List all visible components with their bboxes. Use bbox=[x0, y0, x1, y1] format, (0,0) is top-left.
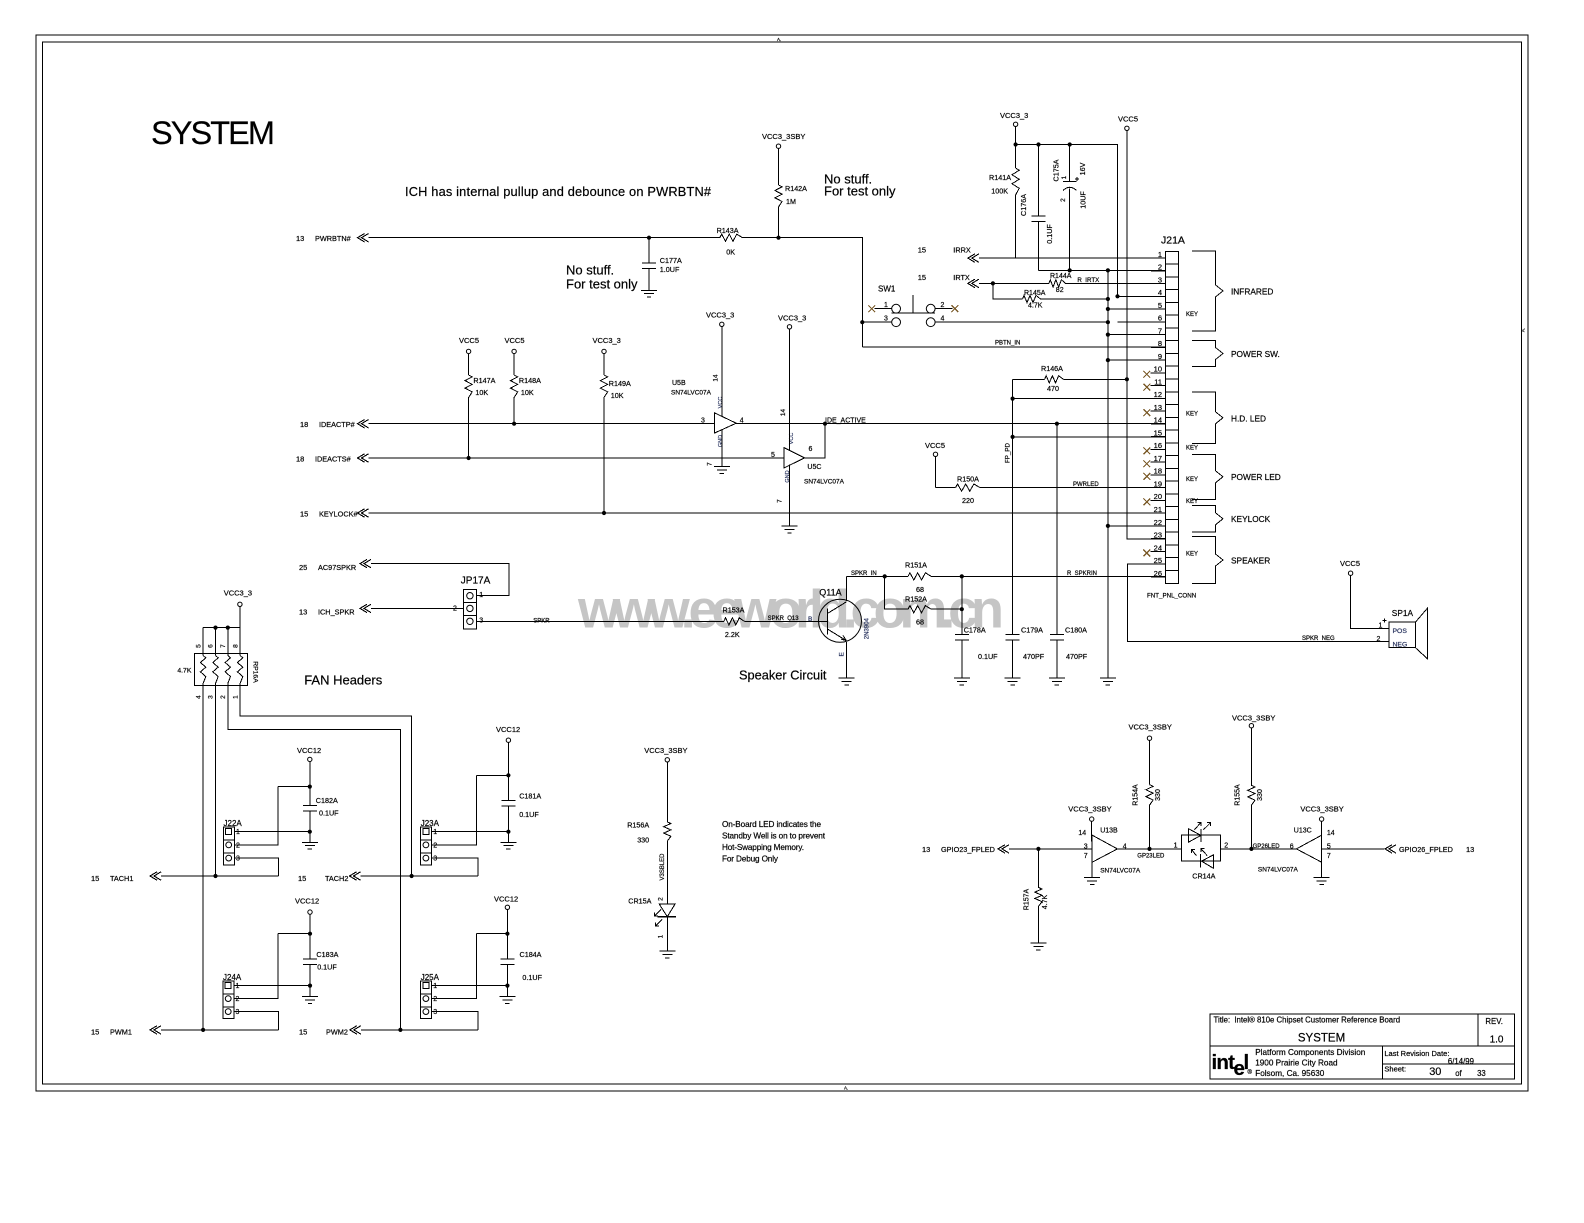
svg-text:470PF: 470PF bbox=[1066, 652, 1088, 661]
svg-text:R153A: R153A bbox=[723, 606, 745, 615]
svg-text:68: 68 bbox=[916, 618, 924, 627]
svg-text:18: 18 bbox=[1154, 467, 1162, 476]
svg-text:9: 9 bbox=[1158, 352, 1162, 361]
svg-text:REV.: REV. bbox=[1485, 1017, 1502, 1026]
svg-text:C180A: C180A bbox=[1065, 626, 1087, 635]
svg-text:2: 2 bbox=[236, 996, 240, 1003]
capacitor C177A bbox=[648, 238, 650, 264]
svg-text:6: 6 bbox=[208, 644, 215, 648]
no-connect pins J21A bbox=[1143, 371, 1150, 378]
svg-text:Sheet:: Sheet: bbox=[1384, 1065, 1406, 1074]
wire J23A pin2 bbox=[432, 775, 477, 845]
svg-text:NEG: NEG bbox=[1393, 641, 1408, 648]
svg-text:VCC5: VCC5 bbox=[505, 336, 525, 345]
svg-text:E: E bbox=[839, 651, 846, 656]
svg-text:VCC12: VCC12 bbox=[297, 746, 321, 755]
svg-text:Standby Well is on to prevent: Standby Well is on to prevent bbox=[722, 832, 826, 841]
wire VCC12 rail J24A bbox=[309, 914, 311, 959]
ground U13C bbox=[1321, 862, 1323, 877]
capacitor C175A polarized bbox=[1069, 145, 1071, 182]
ground Q11A bbox=[839, 677, 855, 679]
svg-text:10: 10 bbox=[1154, 365, 1162, 374]
capacitor C182A bbox=[303, 805, 317, 807]
svg-text:5: 5 bbox=[1158, 301, 1162, 310]
svg-text:of: of bbox=[1455, 1069, 1462, 1078]
ground U5B bbox=[721, 430, 723, 467]
svg-text:5: 5 bbox=[195, 644, 202, 648]
svg-text:13: 13 bbox=[299, 608, 307, 617]
svg-text:15: 15 bbox=[299, 1027, 307, 1036]
junction VCC3_3 pin4 bbox=[1115, 294, 1119, 298]
svg-text:VCC5: VCC5 bbox=[925, 441, 945, 450]
junction C177A tap bbox=[647, 236, 651, 240]
wire IDE_ACTIVE pin14 bbox=[736, 423, 1165, 425]
junction FP_PD pin12 bbox=[1011, 397, 1015, 401]
wire VCC5 vertical bbox=[1126, 131, 1128, 380]
brace POWER LED bbox=[1192, 454, 1223, 499]
svg-text:TACH2: TACH2 bbox=[325, 874, 348, 883]
wire FP_PD vertical bbox=[1012, 379, 1014, 634]
svg-text:GP23LED: GP23LED bbox=[1137, 853, 1165, 859]
ground C177A bbox=[641, 289, 657, 291]
svg-text:R154A: R154A bbox=[1133, 784, 1140, 806]
wire pin12 bbox=[1013, 398, 1166, 400]
capacitor C183A bbox=[303, 958, 317, 960]
svg-text:R_SPKRIN: R_SPKRIN bbox=[1067, 571, 1097, 577]
ground CR15A bbox=[659, 950, 675, 952]
svg-text:FAN Headers: FAN Headers bbox=[304, 673, 383, 688]
svg-text:0.1UF: 0.1UF bbox=[519, 810, 539, 819]
wire R145A to gnd bus bbox=[1041, 298, 1108, 300]
ground C180A bbox=[1049, 677, 1065, 679]
svg-text:PBTN_IN: PBTN_IN bbox=[995, 341, 1020, 347]
svg-text:2: 2 bbox=[453, 606, 457, 613]
wire VCC3_3 rail bbox=[1015, 127, 1017, 145]
junction gnd bus pin7 bbox=[1106, 333, 1110, 337]
svg-text:VCC12: VCC12 bbox=[496, 725, 520, 734]
svg-text:4.7K: 4.7K bbox=[1028, 303, 1043, 310]
resistor R148A bbox=[513, 354, 515, 375]
svg-text:KEY: KEY bbox=[1186, 552, 1198, 558]
svg-text:4.7K: 4.7K bbox=[177, 667, 191, 674]
svg-text:U5C: U5C bbox=[807, 464, 821, 471]
wire VCC12 rail J23A bbox=[507, 742, 509, 800]
svg-text:1: 1 bbox=[433, 983, 437, 990]
svg-text:JP17A: JP17A bbox=[461, 575, 491, 586]
svg-text:2.2K: 2.2K bbox=[725, 630, 740, 639]
wire R145A branch bbox=[993, 283, 1023, 299]
svg-text:15: 15 bbox=[918, 273, 926, 282]
svg-text:21: 21 bbox=[1154, 505, 1162, 514]
ground R157A bbox=[1030, 942, 1046, 944]
svg-text:SPKR_IN: SPKR_IN bbox=[851, 571, 877, 577]
svg-text:17: 17 bbox=[1154, 454, 1162, 463]
resistor R150A bbox=[935, 457, 937, 488]
svg-text:15: 15 bbox=[91, 874, 99, 883]
svg-text:22: 22 bbox=[1154, 518, 1162, 527]
svg-text:470PF: 470PF bbox=[1023, 652, 1045, 661]
svg-text:13: 13 bbox=[1466, 845, 1474, 854]
brace INFRARED bbox=[1192, 251, 1223, 331]
brace SPEAKER bbox=[1192, 537, 1223, 584]
wire J22A pin1 bbox=[234, 831, 309, 833]
ground U13B bbox=[1091, 862, 1093, 877]
svg-text:12: 12 bbox=[1154, 390, 1162, 399]
svg-text:13: 13 bbox=[1154, 403, 1162, 412]
svg-text:VCC5: VCC5 bbox=[459, 336, 479, 345]
svg-text:FNT_PNL_CONN: FNT_PNL_CONN bbox=[1147, 593, 1196, 600]
wire J23A pin1 bbox=[432, 831, 509, 833]
junction gnd bus pin22 bbox=[1106, 524, 1110, 528]
svg-text:SPKR: SPKR bbox=[533, 618, 550, 624]
wire J25A pin1 bbox=[432, 985, 508, 987]
ground U5C bbox=[789, 465, 791, 526]
svg-text:IRTX: IRTX bbox=[953, 273, 970, 282]
resistor R157A bbox=[1037, 849, 1039, 888]
wire VCC12 rail J22A bbox=[309, 762, 311, 806]
svg-text:14: 14 bbox=[1078, 830, 1086, 837]
wire V3SBLED bbox=[666, 841, 668, 904]
svg-text:10UF: 10UF bbox=[1079, 191, 1088, 209]
wire R152A out bbox=[931, 608, 962, 610]
resistor R149A bbox=[603, 354, 605, 375]
wire R_SPKRIN pin26 bbox=[962, 575, 1166, 577]
wire PWRLED pin19 bbox=[980, 487, 1166, 489]
svg-text:1: 1 bbox=[657, 934, 664, 938]
svg-text:Q11A: Q11A bbox=[819, 587, 841, 597]
resistor R142A bbox=[778, 148, 780, 185]
wire J25A pin3 PWM2 bbox=[432, 1012, 478, 1030]
svg-text:25: 25 bbox=[1154, 556, 1162, 565]
wire GP23LED bbox=[1117, 848, 1181, 850]
svg-text:8: 8 bbox=[1158, 339, 1162, 348]
ground C184A bbox=[499, 996, 515, 998]
svg-text:V3SBLED: V3SBLED bbox=[660, 853, 666, 881]
svg-text:H.D. LED: H.D. LED bbox=[1231, 413, 1266, 423]
wire TACH2 bbox=[361, 875, 478, 877]
svg-text:VCC3_3SBY: VCC3_3SBY bbox=[762, 132, 805, 141]
svg-text:CR14A: CR14A bbox=[1192, 872, 1215, 881]
svg-text:1: 1 bbox=[479, 592, 483, 599]
wire IRRX pin1 bbox=[979, 257, 1166, 259]
wire GP26LED bbox=[1221, 848, 1297, 850]
svg-text:24: 24 bbox=[1154, 543, 1162, 552]
wire J23A pin3 TACH2 bbox=[432, 858, 478, 876]
svg-text:C181A: C181A bbox=[519, 792, 541, 801]
wire J24A pin3 PWM1 bbox=[234, 1012, 279, 1030]
svg-text:2: 2 bbox=[433, 996, 437, 1003]
svg-text:Platform Components Division: Platform Components Division bbox=[1255, 1048, 1366, 1057]
svg-text:ICH_SPKR: ICH_SPKR bbox=[318, 608, 355, 617]
wire pack pin2 to PWM2 pullup bbox=[228, 684, 401, 1030]
svg-text:U13C: U13C bbox=[1294, 828, 1312, 835]
junction C180A tap bbox=[1055, 422, 1059, 426]
svg-text:1: 1 bbox=[1174, 843, 1178, 850]
svg-text:SN74LVC07A: SN74LVC07A bbox=[671, 390, 712, 397]
svg-text:SW1: SW1 bbox=[878, 285, 896, 294]
wire GPIO23_FPLED bbox=[1009, 848, 1092, 850]
wire PWM1 bbox=[161, 1029, 279, 1031]
resistor R145A bbox=[1023, 295, 1041, 302]
port GPIO26_FPLED bbox=[1385, 845, 1396, 853]
svg-text:VCC3_3: VCC3_3 bbox=[224, 588, 252, 597]
svg-text:VCC: VCC bbox=[718, 397, 724, 409]
wire PWM2 bbox=[361, 1029, 478, 1031]
capacitor C178A bbox=[961, 576, 963, 634]
svg-text:PWRLED: PWRLED bbox=[1073, 482, 1099, 488]
svg-text:20: 20 bbox=[1154, 492, 1162, 501]
svg-text:16: 16 bbox=[1154, 441, 1162, 450]
wire pin7 bbox=[1108, 334, 1166, 336]
svg-text:7: 7 bbox=[707, 462, 714, 466]
svg-text:C184A: C184A bbox=[520, 950, 542, 959]
resistor R147A bbox=[468, 354, 470, 375]
svg-text:TACH1: TACH1 bbox=[110, 874, 133, 883]
svg-text:0.1UF: 0.1UF bbox=[319, 809, 339, 818]
wire TACH1 bbox=[161, 875, 279, 877]
svg-text:7: 7 bbox=[1084, 853, 1088, 860]
svg-text:R147A: R147A bbox=[473, 376, 495, 385]
svg-text:14: 14 bbox=[1327, 830, 1335, 837]
svg-text:4: 4 bbox=[1158, 288, 1162, 297]
svg-text:R_IRTX: R_IRTX bbox=[1077, 277, 1099, 284]
svg-text:GND: GND bbox=[785, 470, 791, 482]
wire pin4 bbox=[1118, 295, 1166, 297]
svg-text:VCC3_3: VCC3_3 bbox=[1000, 111, 1028, 120]
capacitor C181A bbox=[501, 799, 515, 801]
wire SPKR bbox=[476, 620, 723, 622]
svg-text:1: 1 bbox=[236, 983, 240, 990]
svg-text:1.0: 1.0 bbox=[1490, 1035, 1504, 1046]
svg-text:IDEACTS#: IDEACTS# bbox=[315, 455, 352, 464]
svg-text:SYSTEM: SYSTEM bbox=[151, 115, 275, 151]
svg-text:POS: POS bbox=[1393, 628, 1408, 635]
svg-text:3: 3 bbox=[208, 695, 215, 699]
svg-text:14: 14 bbox=[713, 374, 720, 382]
svg-text:SPKR_Q13: SPKR_Q13 bbox=[768, 616, 800, 622]
wire J24A pin2 bbox=[234, 934, 278, 999]
svg-text:1: 1 bbox=[1379, 623, 1383, 630]
svg-text:13: 13 bbox=[922, 845, 930, 854]
svg-text:For Debug Only: For Debug Only bbox=[722, 855, 779, 864]
svg-text:25: 25 bbox=[299, 563, 307, 572]
brace KEYLOCK bbox=[1192, 506, 1223, 532]
resistor pack RP16A bbox=[195, 654, 248, 686]
svg-text:18: 18 bbox=[300, 420, 308, 429]
svg-text:GP26LED: GP26LED bbox=[1253, 844, 1281, 850]
svg-text:For test only: For test only bbox=[824, 184, 896, 199]
svg-text:SP1A: SP1A bbox=[1392, 608, 1414, 618]
svg-text:18: 18 bbox=[296, 455, 304, 464]
svg-text:7: 7 bbox=[777, 499, 784, 503]
wire pack rail bbox=[239, 607, 241, 628]
svg-text:10K: 10K bbox=[475, 388, 488, 397]
svg-text:68: 68 bbox=[916, 585, 924, 594]
brace POWER SW. bbox=[1192, 340, 1223, 366]
svg-text:VCC3_3SBY: VCC3_3SBY bbox=[1129, 723, 1172, 732]
svg-text:R150A: R150A bbox=[957, 475, 979, 484]
ground C183A bbox=[302, 996, 318, 998]
svg-text:2: 2 bbox=[941, 302, 945, 309]
svg-text:SPEAKER: SPEAKER bbox=[1231, 556, 1270, 566]
svg-text:int: int bbox=[1212, 1051, 1236, 1074]
svg-text:RP16A: RP16A bbox=[252, 661, 259, 683]
svg-text:GND: GND bbox=[718, 435, 724, 447]
wire SW1 pin3 bbox=[862, 321, 891, 323]
svg-text:33: 33 bbox=[1477, 1069, 1486, 1078]
wire GPIO26_FPLED bbox=[1322, 848, 1384, 850]
svg-text:15: 15 bbox=[1154, 428, 1162, 437]
svg-text:A.: A. bbox=[844, 1086, 848, 1091]
junction R142A bottom bbox=[776, 236, 780, 240]
svg-text:1M: 1M bbox=[786, 197, 796, 206]
wire IDEACTS# bbox=[369, 457, 785, 459]
ground C178A bbox=[954, 677, 970, 679]
svg-text:6/14/99: 6/14/99 bbox=[1448, 1057, 1474, 1066]
svg-text:Last Revision Date:: Last Revision Date: bbox=[1384, 1049, 1449, 1058]
svg-text:82: 82 bbox=[1056, 287, 1064, 294]
svg-text:10K: 10K bbox=[521, 388, 534, 397]
svg-text:ICH has internal pullup and de: ICH has internal pullup and debounce on … bbox=[405, 184, 712, 199]
svg-text:4: 4 bbox=[195, 695, 202, 699]
svg-text:R156A: R156A bbox=[627, 820, 649, 829]
svg-text:SN74LVC07A: SN74LVC07A bbox=[1100, 867, 1141, 874]
svg-text:0.1UF: 0.1UF bbox=[978, 652, 998, 661]
svg-text:POWER SW.: POWER SW. bbox=[1231, 349, 1280, 359]
svg-text:A.: A. bbox=[777, 37, 781, 42]
svg-text:1: 1 bbox=[232, 695, 239, 699]
svg-text:2: 2 bbox=[1158, 263, 1162, 272]
svg-text:15: 15 bbox=[300, 510, 308, 519]
svg-text:PWRBTN#: PWRBTN# bbox=[315, 234, 352, 243]
wire pin6 bbox=[1118, 321, 1166, 323]
svg-text:4: 4 bbox=[941, 316, 945, 323]
svg-text:No stuff.: No stuff. bbox=[566, 263, 614, 278]
svg-text:C177A: C177A bbox=[660, 256, 682, 265]
svg-text:1: 1 bbox=[884, 302, 888, 309]
svg-text:Folsom, Ca. 95630: Folsom, Ca. 95630 bbox=[1255, 1069, 1325, 1078]
svg-text:R141A: R141A bbox=[989, 173, 1011, 182]
svg-text:2: 2 bbox=[1224, 842, 1228, 849]
svg-text:23: 23 bbox=[1154, 531, 1162, 540]
svg-text:10K: 10K bbox=[611, 391, 624, 400]
resistor R152A bbox=[908, 606, 931, 613]
svg-text:R142A: R142A bbox=[785, 184, 807, 193]
svg-text:R157A: R157A bbox=[1024, 888, 1031, 910]
svg-text:100K: 100K bbox=[991, 187, 1008, 196]
svg-text:KEYLOCK: KEYLOCK bbox=[1231, 514, 1271, 524]
ground C181A bbox=[500, 841, 516, 843]
svg-text:16V: 16V bbox=[1078, 162, 1087, 175]
wire U5C out bbox=[805, 424, 826, 458]
svg-text:6: 6 bbox=[809, 446, 813, 453]
svg-text:J21A: J21A bbox=[1161, 235, 1185, 247]
svg-text:VCC3_3SBY: VCC3_3SBY bbox=[1300, 804, 1343, 813]
svg-text:C178A: C178A bbox=[964, 626, 986, 635]
svg-text:14: 14 bbox=[1154, 416, 1162, 425]
svg-text:R148A: R148A bbox=[519, 376, 541, 385]
svg-text:A.: A. bbox=[1521, 328, 1526, 332]
svg-text:4.7K: 4.7K bbox=[1042, 894, 1049, 909]
brace H.D. LED bbox=[1192, 392, 1223, 443]
svg-text:1900 Prairie City Road: 1900 Prairie City Road bbox=[1255, 1058, 1338, 1067]
svg-text:VCC5: VCC5 bbox=[1340, 559, 1360, 568]
svg-text:R149A: R149A bbox=[609, 379, 631, 388]
svg-text:3: 3 bbox=[1084, 843, 1088, 850]
resistor R155A bbox=[1250, 728, 1252, 785]
wire J25A pin2 bbox=[432, 934, 477, 999]
svg-text:3: 3 bbox=[1158, 275, 1162, 284]
capacitor C184A bbox=[500, 958, 514, 960]
svg-text:15: 15 bbox=[298, 874, 306, 883]
svg-text:PWM2: PWM2 bbox=[326, 1027, 348, 1036]
svg-text:R146A: R146A bbox=[1041, 364, 1063, 373]
svg-text:2: 2 bbox=[1377, 636, 1381, 643]
resistor R153A bbox=[724, 618, 745, 625]
svg-text:KEYLOCK#: KEYLOCK# bbox=[319, 510, 358, 519]
svg-text:GPIO26_FPLED: GPIO26_FPLED bbox=[1399, 845, 1453, 854]
wire SW1 pin4 to gnd bus bbox=[935, 321, 1108, 323]
wire pin5 bbox=[1108, 308, 1166, 310]
wire pack pin4 to PWM1 pullup bbox=[202, 684, 204, 1030]
svg-text:14: 14 bbox=[780, 409, 787, 417]
svg-text:VCC12: VCC12 bbox=[494, 895, 518, 904]
svg-text:C183A: C183A bbox=[316, 950, 338, 959]
svg-text:0K: 0K bbox=[726, 248, 735, 257]
svg-text:7: 7 bbox=[1158, 326, 1162, 335]
wire pack pin3 to TACH1 pullup bbox=[215, 684, 217, 877]
svg-text:13: 13 bbox=[296, 234, 304, 243]
wire SPKR_IN bbox=[847, 575, 908, 577]
wire J22A pin2 bbox=[234, 787, 278, 845]
svg-text:R155A: R155A bbox=[1235, 784, 1242, 806]
svg-text:Intel® 810e Chipset Customer R: Intel® 810e Chipset Customer Reference B… bbox=[1234, 1016, 1400, 1025]
svg-text:3: 3 bbox=[236, 856, 240, 863]
resistor R154A bbox=[1149, 740, 1151, 784]
svg-text:2: 2 bbox=[220, 695, 227, 699]
svg-text:0.1UF: 0.1UF bbox=[522, 973, 542, 982]
title block bbox=[1210, 1014, 1515, 1079]
svg-text:330: 330 bbox=[1257, 789, 1264, 801]
wire VCC5 to SP1A pin1 bbox=[1351, 575, 1389, 628]
wire pin25 SPKR_NEG bbox=[1127, 564, 1389, 641]
svg-text:220: 220 bbox=[962, 496, 974, 505]
svg-text:7: 7 bbox=[1327, 853, 1331, 860]
wire pin22 bbox=[1108, 525, 1166, 527]
svg-text:330: 330 bbox=[1155, 789, 1162, 801]
svg-text:VCC3_3SBY: VCC3_3SBY bbox=[1232, 714, 1275, 723]
svg-text:VCC3_3SBY: VCC3_3SBY bbox=[644, 746, 687, 755]
svg-text:VCC5: VCC5 bbox=[1118, 115, 1138, 124]
junction gnd bus pin5 bbox=[1106, 307, 1110, 311]
svg-text:IRRX: IRRX bbox=[953, 246, 971, 255]
wire J22A pin3 TACH1 bbox=[234, 858, 278, 876]
svg-text:1: 1 bbox=[1158, 250, 1162, 259]
ground gnd bus bbox=[1100, 677, 1116, 679]
svg-text:3: 3 bbox=[433, 856, 437, 863]
wire R151A out bbox=[931, 575, 962, 577]
svg-text:SPKR_NEG: SPKR_NEG bbox=[1302, 636, 1335, 642]
svg-text:IDE_ACTIVE: IDE_ACTIVE bbox=[825, 417, 866, 424]
svg-text:R151A: R151A bbox=[905, 561, 927, 570]
svg-text:KEY: KEY bbox=[1186, 312, 1198, 318]
svg-text:2: 2 bbox=[433, 842, 437, 849]
svg-text:1.0UF: 1.0UF bbox=[660, 265, 680, 274]
buffer U5C bbox=[784, 448, 805, 468]
wire pin9 bbox=[1108, 359, 1166, 361]
svg-text:U13B: U13B bbox=[1100, 828, 1118, 835]
svg-text:®: ® bbox=[1248, 1069, 1253, 1076]
